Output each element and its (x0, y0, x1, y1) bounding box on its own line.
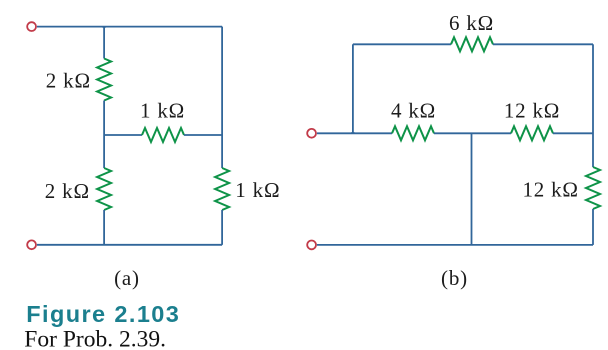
resistor 1 kOhm (right, vertical) of circuit (a) (215, 168, 229, 210)
terminal top-left of circuit (b), open circle (307, 129, 316, 138)
resistor 1 kOhm (middle, horizontal) of circuit (a) (142, 128, 184, 142)
svg-text:2 kΩ: 2 kΩ (46, 69, 91, 93)
wire: left branch of (a) from top wire down to upper resistor (103, 27, 105, 59)
wire: middle horizontal of (a), right segment after 1 kOhm resistor (184, 134, 222, 136)
wire: right vertical of (b) from resistor to bottom wire (592, 209, 594, 245)
svg-text:6 kΩ: 6 kΩ (449, 11, 494, 35)
terminal top-left of circuit (a), open circle (27, 22, 36, 31)
resistor 12 kOhm (right, vertical) of circuit (b) (586, 167, 600, 209)
resistor 6 kOhm (top, horizontal) of circuit (b) (451, 37, 493, 51)
wire: bottom horizontal of (a) (37, 244, 222, 246)
svg-text:12 kΩ: 12 kΩ (504, 99, 560, 123)
resistor 2 kOhm (lower left, vertical) of circuit (a) (97, 168, 111, 210)
svg-text:1 kΩ: 1 kΩ (235, 178, 280, 202)
wire: top horizontal of (b), left segment before 6 kOhm resistor (353, 43, 451, 45)
wire: middle horizontal of (b) from terminal to 4 kOhm resistor (317, 132, 392, 134)
wire: middle horizontal of (b), right segment to right vertical (553, 132, 593, 134)
svg-text:Figure 2.103: Figure 2.103 (26, 301, 180, 327)
wire: middle horizontal of (b) between 4 kOhm and 12 kOhm resistors (434, 132, 511, 134)
wire: middle horizontal of (a), left segment before 1 kOhm resistor (104, 134, 142, 136)
wire: left vertical of top loop of (b) (352, 44, 354, 133)
wire: top horizontal of (b), right segment after 6 kOhm resistor (493, 43, 593, 45)
wire: right vertical of (b) from top corner down to 12 kOhm resistor (592, 44, 594, 167)
wire: right vertical of (a) from resistor to bottom wire (221, 210, 223, 245)
resistor 2 kOhm (upper left, vertical) of circuit (a) (97, 59, 111, 101)
svg-text:For Prob. 2.39.: For Prob. 2.39. (24, 327, 166, 350)
svg-text:1 kΩ: 1 kΩ (140, 99, 185, 123)
wire: left branch of (a) between upper resistor and middle wire (103, 101, 105, 136)
wire: left branch of (a) from middle wire down to lower resistor (103, 135, 105, 168)
svg-text:2 kΩ: 2 kΩ (45, 179, 90, 203)
node: junction of middle wire and top loop of (b) (351, 132, 354, 133)
wire: centre vertical branch of (b) from middle wire to bottom wire (471, 133, 473, 245)
terminal bottom-left of circuit (a), open circle (27, 240, 36, 249)
svg-text:4 kΩ: 4 kΩ (391, 99, 436, 123)
resistor 12 kOhm (middle right, horizontal) of circuit (b) (511, 126, 553, 140)
svg-text:(b): (b) (441, 266, 468, 290)
wire: bottom horizontal of (b) (317, 244, 593, 246)
wire: right vertical of (a) from top corner down to 1 kOhm resistor (221, 27, 223, 168)
svg-text:12 kΩ: 12 kΩ (522, 178, 578, 202)
svg-text:(a): (a) (114, 266, 140, 290)
terminal bottom-left of circuit (b), open circle (307, 241, 316, 250)
wire: top horizontal of (a) from terminal to right corner (37, 26, 222, 28)
resistor 4 kOhm (middle left, horizontal) of circuit (b) (392, 126, 434, 140)
node: junction of top wire and left branch of (a) (102, 27, 105, 28)
wire: left branch of (a) from lower resistor to bottom wire (103, 210, 105, 245)
